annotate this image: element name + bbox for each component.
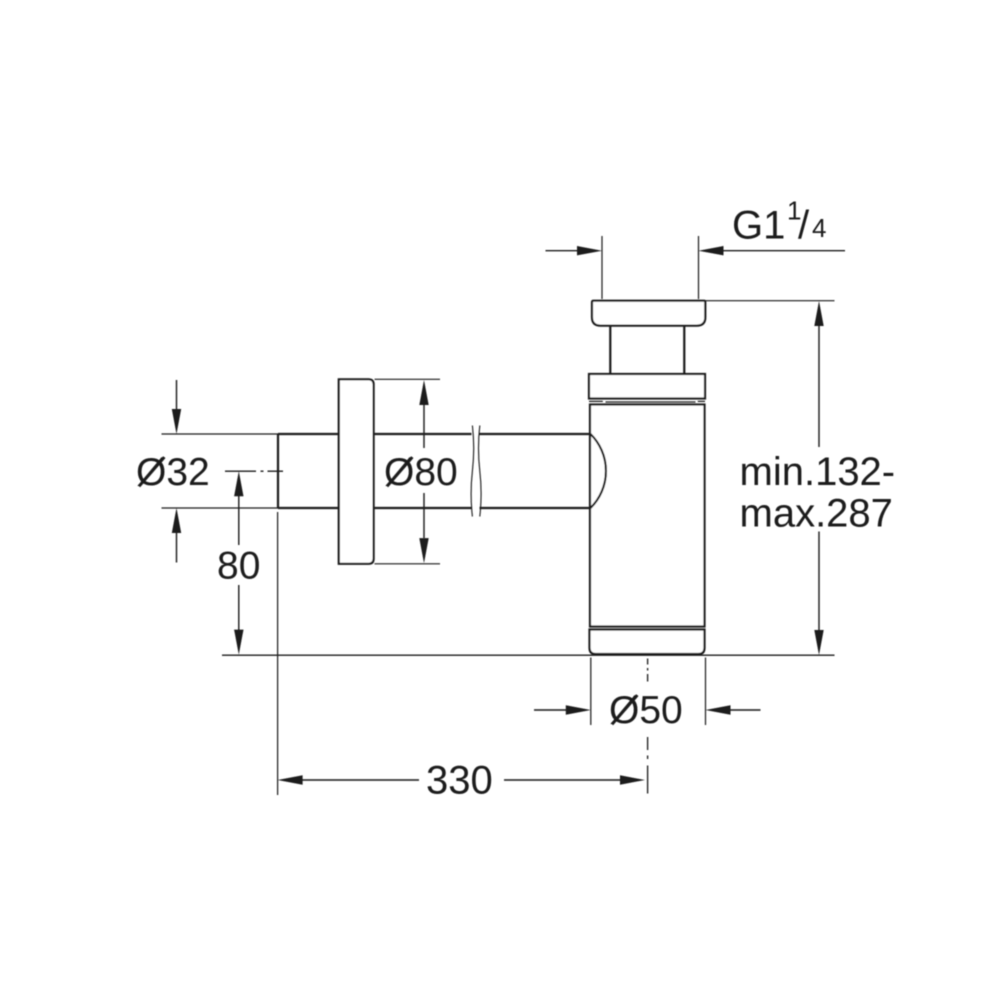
body bottom cap: [590, 630, 705, 655]
svg-text:/: /: [798, 204, 810, 248]
svg-text:min.132-: min.132-: [740, 450, 896, 494]
body rim line: [589, 400, 705, 403]
svg-text:G1: G1: [732, 204, 785, 248]
dimension 330: [278, 512, 645, 803]
dimension G1 1/4: [546, 196, 846, 300]
body top nut: [589, 374, 705, 399]
inlet pipe Ø32: [278, 434, 592, 508]
trap body: [590, 405, 705, 627]
dimension Ø80: [375, 379, 458, 564]
svg-text:330: 330: [426, 759, 493, 803]
top coupling nut G1 1/4: [592, 301, 705, 326]
dimension Ø32: [136, 380, 283, 563]
svg-text:Ø50: Ø50: [609, 689, 683, 732]
svg-text:80: 80: [217, 545, 260, 588]
pipe break lines: [471, 426, 481, 517]
baseline: [222, 654, 835, 656]
pipe-body junction arc: [591, 434, 606, 508]
centerline (bottom outlet): [647, 659, 649, 794]
svg-text:4: 4: [812, 213, 826, 243]
dimension min.132-max.287: [704, 301, 895, 655]
dimension 80: [217, 471, 260, 654]
connector pipe between nuts: [610, 326, 684, 374]
svg-text:Ø80: Ø80: [384, 451, 458, 494]
dimension Ø50: [534, 658, 761, 733]
svg-text:Ø32: Ø32: [136, 451, 210, 494]
wall flange plate Ø80: [339, 379, 374, 564]
svg-text:max.287: max.287: [740, 492, 893, 536]
